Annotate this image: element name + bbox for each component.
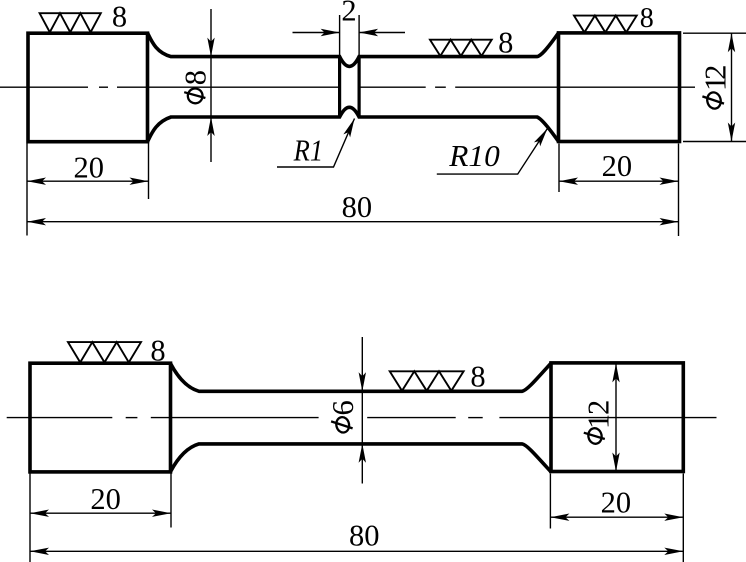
svg-text:20: 20 xyxy=(601,485,632,519)
svg-text:8: 8 xyxy=(112,0,127,34)
svg-text:8: 8 xyxy=(150,334,165,368)
dimension 80 (top) xyxy=(27,221,679,223)
svg-text:12: 12 xyxy=(581,400,615,429)
dimension 80 (bottom) xyxy=(30,550,683,552)
dimension phi8 vertical line xyxy=(210,9,212,162)
leader R10 xyxy=(437,129,548,175)
left grip block (bottom view) xyxy=(30,363,171,472)
svg-text:80: 80 xyxy=(349,518,380,552)
svg-text:2: 2 xyxy=(341,0,356,28)
notch groove edge lines xyxy=(340,57,360,117)
svg-text:20: 20 xyxy=(602,149,633,183)
dimension 20 (top-right) xyxy=(559,144,679,237)
surface finish symbol (top-middle gauge) xyxy=(430,40,492,56)
svg-text:20: 20 xyxy=(90,482,121,516)
surface finish symbol (top-right block) xyxy=(574,16,637,33)
svg-text:20: 20 xyxy=(74,151,105,185)
svg-text:R10: R10 xyxy=(448,138,500,173)
leader R1 xyxy=(277,119,355,168)
dimension 20 (bottom-right) xyxy=(550,474,683,562)
surface finish symbol (bottom-middle gauge) xyxy=(390,371,464,391)
centerline (bottom view) xyxy=(7,417,717,419)
svg-text:8: 8 xyxy=(498,25,513,59)
svg-text:6: 6 xyxy=(326,400,360,415)
dimension 20 (top-left) xyxy=(27,144,149,236)
dimension phi12 (bottom, inside block) xyxy=(615,363,617,471)
right grip block (bottom view) xyxy=(551,363,683,472)
dimension 20 (bottom-left) xyxy=(30,474,171,562)
dimension 2 (notch width) xyxy=(293,15,406,56)
centerline (top view) xyxy=(0,86,695,88)
svg-text:8: 8 xyxy=(470,360,485,394)
surface finish symbol (top-left block) xyxy=(40,13,101,32)
surface finish symbol (bottom-left block) xyxy=(68,342,141,362)
gauge section outline with fillets (bottom view) xyxy=(171,363,552,472)
dimension phi6 vertical line xyxy=(361,337,363,484)
svg-text:8: 8 xyxy=(640,3,654,34)
svg-text:8: 8 xyxy=(178,70,212,85)
svg-text:80: 80 xyxy=(342,190,373,224)
gauge section outline with fillets and notch (top view) xyxy=(148,33,559,142)
left grip block (top view) xyxy=(28,33,148,142)
right grip block (top view) xyxy=(559,33,680,142)
svg-text:R1: R1 xyxy=(293,133,323,168)
svg-text:12: 12 xyxy=(698,65,732,91)
dimension phi12 (top-right) xyxy=(683,33,746,141)
